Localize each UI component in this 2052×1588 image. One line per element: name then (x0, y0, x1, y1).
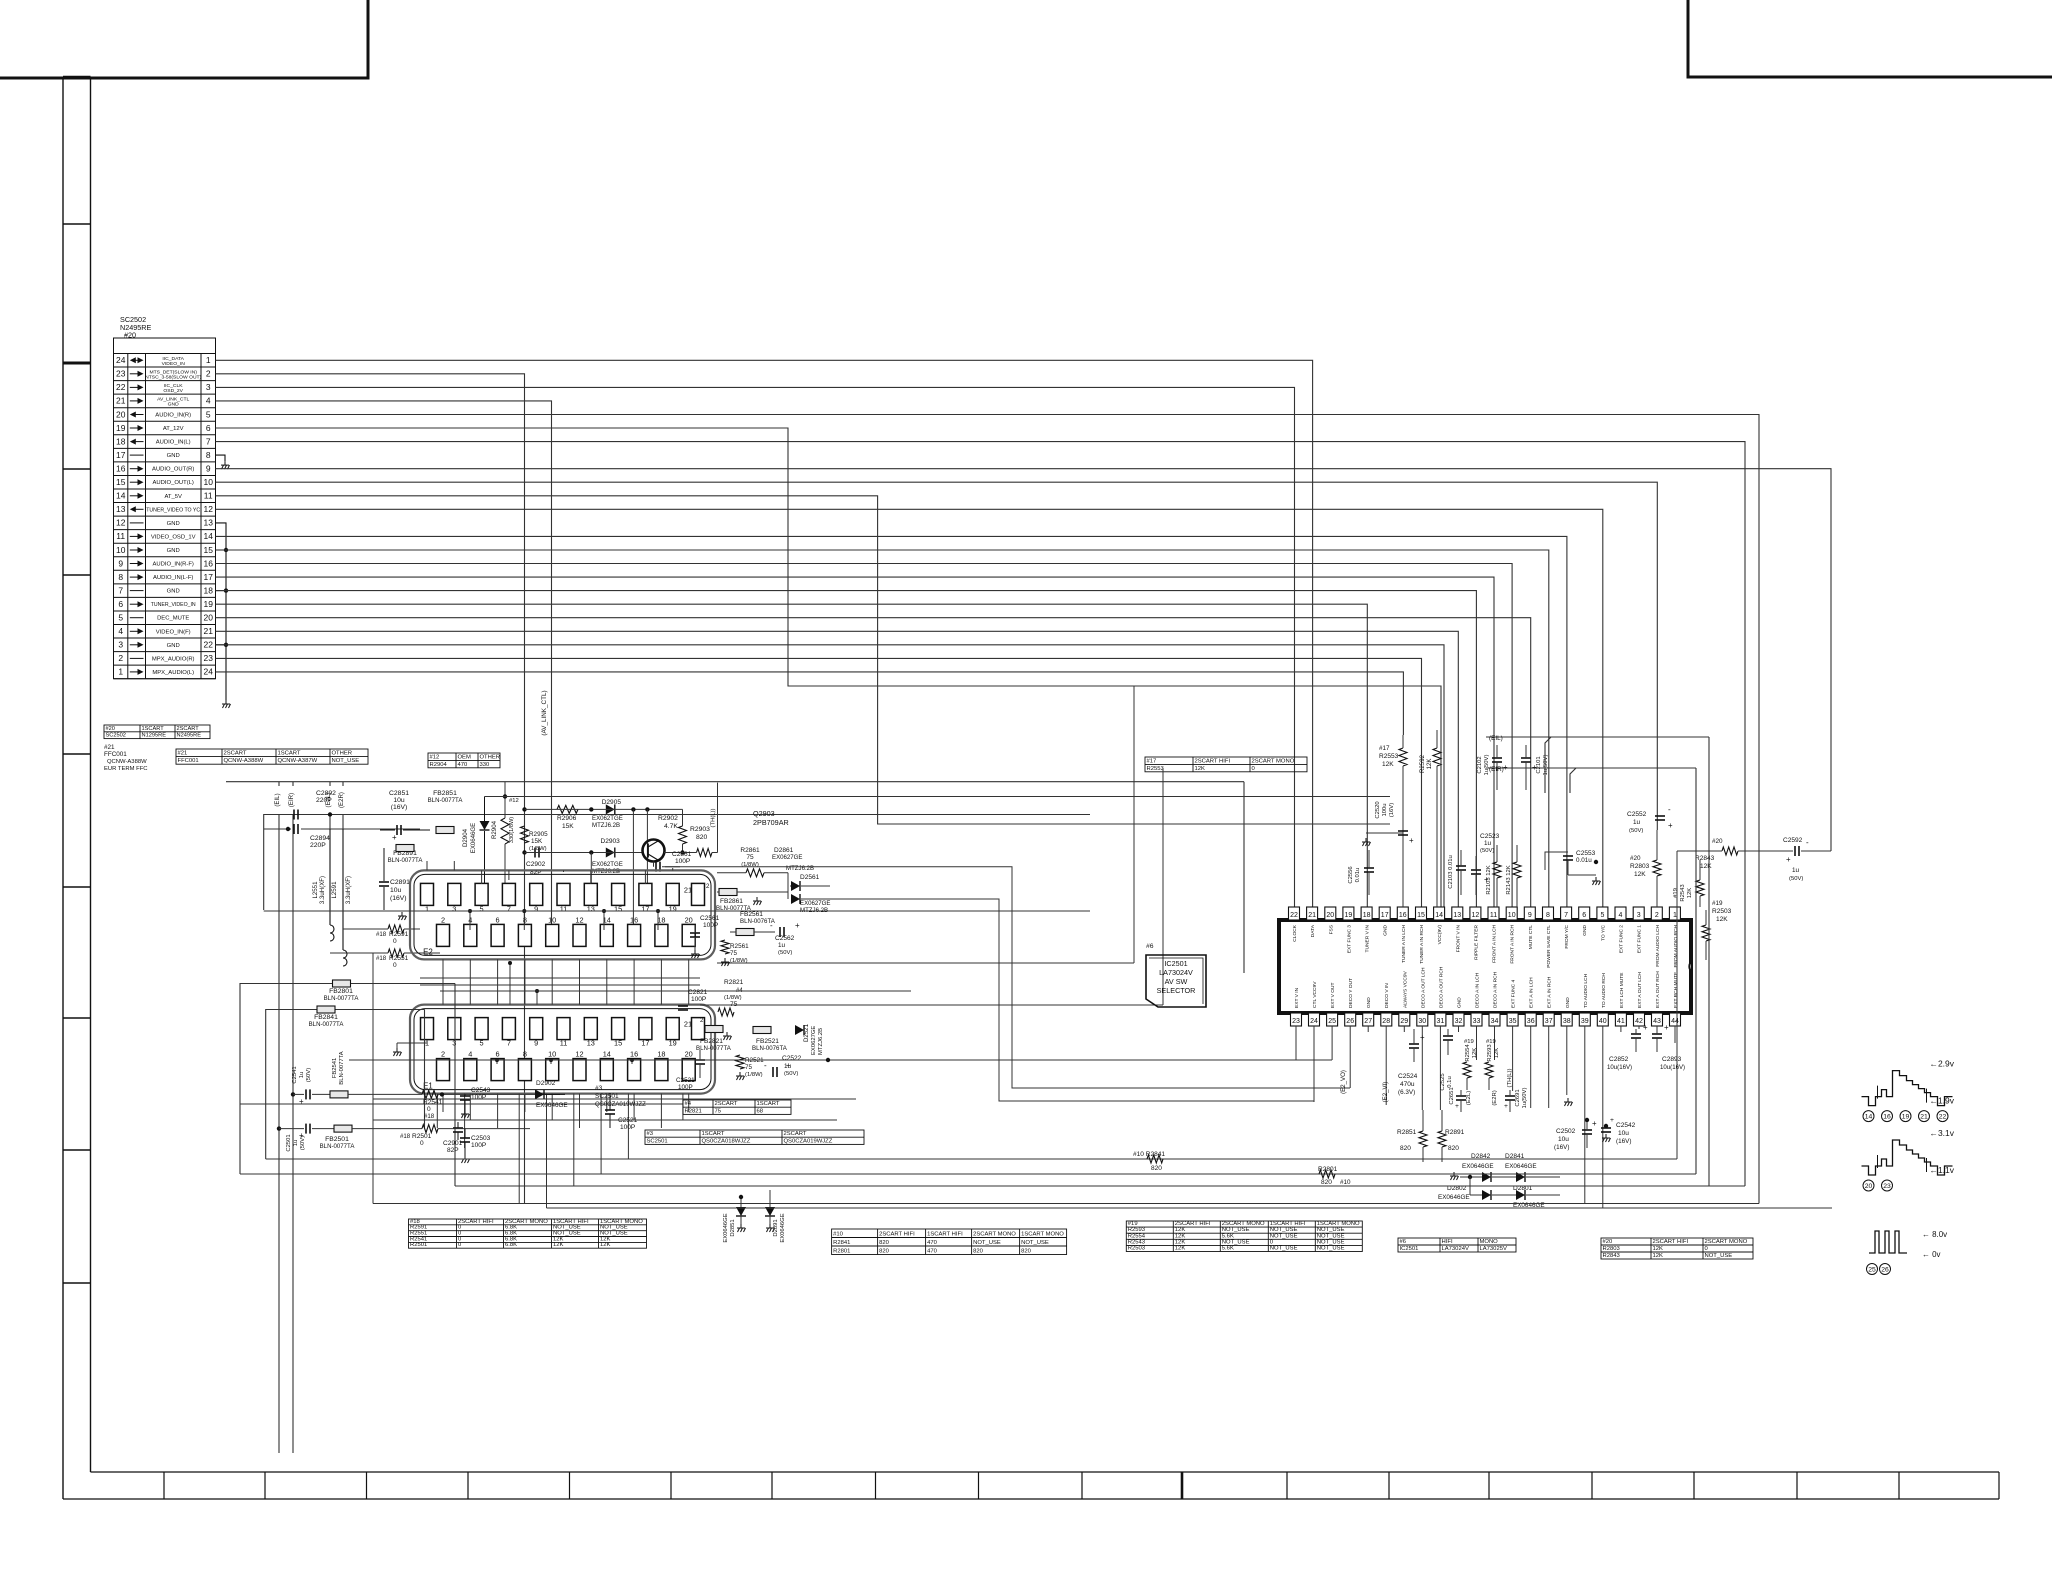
svg-text:22: 22 (1939, 1114, 1947, 1121)
svg-text:EX062TGE: EX062TGE (592, 815, 623, 822)
svg-text:(16V): (16V) (390, 895, 407, 902)
capacitor (1795, 846, 1799, 856)
diode (791, 881, 800, 891)
SCART connector E2 pin 11 (557, 883, 570, 905)
wire pin21 VIDEO_IN(F) to IC pin13 (216, 631, 1459, 907)
svg-text:TO Y/C: TO Y/C (1600, 925, 1606, 941)
svg-text:1: 1 (425, 904, 429, 913)
svg-text:2: 2 (1655, 912, 1659, 919)
svg-text:2: 2 (206, 369, 211, 379)
svg-text:12K: 12K (1716, 916, 1728, 923)
svg-text:21: 21 (203, 626, 213, 636)
svg-text:10u: 10u (390, 887, 402, 894)
svg-text:C2542: C2542 (1616, 1122, 1636, 1129)
svg-text:NOT_USE: NOT_USE (332, 758, 360, 764)
svg-text:220P: 220P (316, 797, 332, 804)
svg-text:C2543: C2543 (471, 1087, 491, 1094)
svg-text:FROM Y/C: FROM Y/C (1564, 924, 1570, 948)
svg-text:21: 21 (1920, 1114, 1928, 1121)
SCART connector E1 pin 10 (546, 1059, 559, 1081)
svg-text:-: - (1806, 838, 1809, 847)
svg-text:15: 15 (203, 545, 213, 555)
svg-text:#12: #12 (430, 754, 440, 760)
svg-text:NOT_USE: NOT_USE (1222, 1227, 1250, 1233)
svg-text:5: 5 (118, 613, 123, 623)
svg-text:20: 20 (685, 1050, 693, 1059)
svg-text:DECO V IN: DECO V IN (1384, 983, 1390, 1008)
IC2501 pin 12 (1470, 907, 1481, 920)
SCART connector E2 pin 5 (475, 883, 488, 905)
ground (221, 461, 230, 469)
svg-text:11: 11 (560, 904, 568, 913)
inter-block horizontals (717, 962, 1134, 964)
svg-text:R2902: R2902 (658, 815, 678, 822)
capacitor (678, 1006, 688, 1010)
svg-text:#17: #17 (1379, 745, 1390, 752)
svg-text:12K: 12K (1700, 863, 1712, 870)
svg-text:16: 16 (630, 915, 638, 924)
svg-text:2PB709AR: 2PB709AR (753, 818, 789, 827)
svg-text:EXT FUNC 3: EXT FUNC 3 (1346, 925, 1352, 953)
svg-text:LA73025V: LA73025V (1480, 1246, 1507, 1252)
svg-text:OSD_2V: OSD_2V (163, 388, 183, 394)
capacitor (379, 882, 389, 886)
svg-text:R2143 12K: R2143 12K (1506, 865, 1512, 894)
svg-text:C2561: C2561 (700, 915, 720, 922)
capacitor (306, 1089, 310, 1099)
wire E1 pin drop (518, 1094, 520, 1204)
main wires Q2903 cluster (525, 808, 683, 810)
svg-text:VIDEO_OSD_1V: VIDEO_OSD_1V (151, 534, 196, 540)
svg-text:12: 12 (203, 504, 213, 514)
svg-text:-: - (764, 1061, 767, 1070)
svg-text:23: 23 (203, 653, 213, 663)
svg-text:CTL VCC9V: CTL VCC9V (1312, 981, 1318, 1008)
svg-text:DECO A IN LCH: DECO A IN LCH (1475, 972, 1481, 1008)
svg-text:C2556: C2556 (1348, 866, 1354, 883)
svg-text:NTSC_3-58(SLOW OUT): NTSC_3-58(SLOW OUT) (145, 374, 201, 380)
resistor (746, 869, 764, 877)
svg-text:+: + (1455, 1103, 1459, 1110)
svg-text:10u: 10u (393, 797, 405, 804)
svg-text:1u: 1u (299, 1072, 305, 1079)
svg-text:AV SW: AV SW (1165, 977, 1188, 986)
svg-text:C2901: C2901 (443, 1140, 463, 1147)
svg-text:R2891: R2891 (1445, 1129, 1465, 1136)
IC2501 pin 42 (1634, 1013, 1645, 1026)
SCART connector E2 pin 14 (600, 924, 613, 946)
svg-text:40: 40 (1599, 1018, 1607, 1025)
diode (765, 1207, 775, 1216)
svg-text:6.8K: 6.8K (505, 1242, 517, 1248)
SCART pin riser wires (426, 861, 428, 870)
svg-text:#18: #18 (376, 931, 387, 938)
SCART connector E2 pin 13 (584, 883, 597, 905)
svg-text:DEC_MUTE: DEC_MUTE (157, 616, 189, 622)
svg-text:DECO A OUT LCH: DECO A OUT LCH (1420, 967, 1426, 1008)
IC2501 pin 36 (1525, 1013, 1536, 1026)
svg-text:C2521: C2521 (676, 1077, 695, 1084)
table #4 R2821 (683, 1100, 791, 1114)
wire pin18 (216, 591, 1477, 907)
svg-text:DECO A IN RCH: DECO A IN RCH (1493, 971, 1499, 1008)
table #20 connector variants (104, 725, 210, 739)
IC2501 pin 9 (1524, 907, 1535, 920)
diode (535, 1089, 544, 1099)
wire (EIL) (1486, 737, 1551, 793)
svg-text:1: 1 (206, 355, 211, 365)
IC2501 pin 13 (1452, 907, 1463, 920)
svg-text:10u(16V): 10u(16V) (1607, 1064, 1632, 1071)
wire (E2R) vertical (342, 782, 344, 829)
wire (EIR) vertical (292, 782, 294, 1453)
ferrite bead (333, 980, 351, 987)
svg-text:8: 8 (523, 915, 527, 924)
resistor (1438, 1131, 1446, 1147)
svg-text:FSS: FSS (1328, 924, 1334, 934)
svg-text:100P: 100P (675, 858, 691, 865)
svg-text:GND: GND (167, 643, 180, 649)
wire pin5 AUDIO_IN(R) (216, 415, 1760, 1204)
svg-text:8: 8 (206, 450, 211, 460)
svg-text:24: 24 (203, 667, 213, 677)
svg-text:(50V): (50V) (1789, 876, 1803, 882)
svg-text:100P: 100P (691, 996, 707, 1003)
svg-text:EX0627GE: EX0627GE (811, 1026, 817, 1055)
svg-text:R2905: R2905 (529, 831, 548, 838)
svg-text:42: 42 (1635, 1018, 1643, 1025)
svg-text:EUR TERM FFC: EUR TERM FFC (104, 766, 148, 772)
junction GND row 22 (224, 643, 228, 647)
wire pin3 IIC_CLK to IC pin22 (216, 387, 1295, 907)
wire pin7 AUDIO_IN(L) (216, 442, 1746, 1186)
svg-text:AUDIO_OUT(R): AUDIO_OUT(R) (152, 467, 194, 473)
svg-text:9: 9 (118, 558, 123, 568)
capacitor C2894 (294, 824, 298, 834)
svg-text:GND: GND (167, 521, 180, 527)
SCART connector E1 pin 9 (530, 1018, 543, 1040)
IC2501 pin 29 (1399, 1013, 1410, 1026)
capacitor (1471, 870, 1481, 874)
svg-text:#20: #20 (1603, 1239, 1614, 1245)
ferrite bead (317, 1006, 335, 1013)
svg-text:10: 10 (203, 477, 213, 487)
SCART connector E1 pin 21 (692, 1018, 705, 1040)
svg-text:29: 29 (1400, 1018, 1408, 1025)
svg-text:NOT_USE: NOT_USE (1270, 1233, 1298, 1239)
svg-text:1u: 1u (778, 942, 786, 949)
svg-text:QCNW-A388W: QCNW-A388W (107, 759, 147, 765)
svg-text:(EIL): (EIL) (274, 793, 281, 806)
svg-text:C2902: C2902 (526, 861, 546, 868)
svg-text:7: 7 (507, 1039, 511, 1048)
svg-text:D2902: D2902 (536, 1080, 556, 1087)
SCART connector E1 pin 17 (639, 1018, 652, 1040)
capacitor C2861 100P (653, 862, 655, 867)
svg-text:(TH(L)): (TH(L)) (711, 809, 717, 828)
IC2501 pin 19 (1343, 907, 1354, 920)
capacitor (1521, 758, 1531, 762)
svg-text:5: 5 (206, 409, 211, 419)
svg-text:+: + (299, 1097, 304, 1106)
diode D2842 (1482, 1172, 1491, 1182)
svg-text:BLN-0076TA: BLN-0076TA (752, 1045, 788, 1052)
ground (721, 958, 730, 966)
svg-text:NOT_USE: NOT_USE (1222, 1239, 1250, 1245)
svg-text:FRONT A IN LCH: FRONT A IN LCH (1492, 925, 1498, 963)
svg-text:15: 15 (116, 477, 126, 487)
capacitor (306, 1124, 310, 1134)
svg-text:FROM AUDIO RCH: FROM AUDIO RCH (1673, 925, 1679, 968)
svg-text:TUNER A IN LCH: TUNER A IN LCH (1401, 925, 1407, 963)
diode (795, 1025, 804, 1035)
wire (EIL) vertical right (1708, 737, 1710, 1186)
svg-text:GND: GND (167, 548, 180, 554)
svg-text:11: 11 (560, 1039, 568, 1048)
SCART connector E1 (410, 1005, 715, 1094)
svg-text:C2592: C2592 (1783, 837, 1803, 844)
svg-text:75: 75 (730, 950, 738, 957)
svg-text:R2103 12K: R2103 12K (1486, 865, 1492, 894)
svg-text:100P: 100P (620, 1124, 636, 1131)
svg-text:1u(50V): 1u(50V) (1522, 1088, 1528, 1109)
svg-text:←2.9v: ←2.9v (1930, 1059, 1955, 1069)
svg-text:27: 27 (1364, 1018, 1372, 1025)
svg-text:ALWAYS VCC9V: ALWAYS VCC9V (1402, 970, 1408, 1008)
svg-text:EX0646GE: EX0646GE (723, 1213, 729, 1242)
svg-text:6: 6 (496, 915, 500, 924)
svg-text:EX0627GE: EX0627GE (772, 854, 803, 861)
svg-text:820: 820 (1448, 1145, 1459, 1152)
svg-text:IC2501: IC2501 (1400, 1246, 1419, 1252)
svg-text:R2591: R2591 (389, 931, 409, 938)
wire E1 pin drop (436, 1094, 438, 1128)
wire vertical x1134 (1133, 686, 1135, 963)
svg-text:C2552: C2552 (1627, 811, 1647, 818)
svg-text:#19: #19 (1712, 900, 1723, 907)
svg-text:10u(16V): 10u(16V) (1660, 1064, 1685, 1071)
SCART connector E1 pin 1 (421, 1018, 434, 1040)
svg-text:OTHER: OTHER (480, 754, 501, 760)
E1 risers to inter-block wires (509, 963, 511, 1005)
svg-text:GND: GND (1565, 997, 1571, 1008)
SCART connector E1 pin 5 (475, 1018, 488, 1040)
vertical x373 (372, 953, 374, 1204)
svg-text:75: 75 (715, 1108, 722, 1114)
svg-text:12K: 12K (1426, 759, 1433, 770)
svg-text:EX0646GE: EX0646GE (536, 1102, 568, 1109)
svg-text:NOT_USE: NOT_USE (1270, 1246, 1298, 1252)
IC2501 pin 8 (1543, 907, 1554, 920)
wire (E2L) vertical (329, 782, 331, 829)
svg-text:2SCART: 2SCART (784, 1131, 807, 1137)
ground (1602, 1134, 1611, 1142)
svg-text:2: 2 (441, 915, 445, 924)
svg-text:13: 13 (203, 518, 213, 528)
svg-text:+: + (1409, 836, 1414, 845)
svg-text:2SCART HIFI: 2SCART HIFI (879, 1232, 915, 1238)
svg-text:TO AUDIO RCH: TO AUDIO RCH (1601, 973, 1607, 1008)
svg-text:12K: 12K (600, 1242, 611, 1248)
svg-text:C2525: C2525 (1440, 1073, 1446, 1091)
svg-text:NOT_USE: NOT_USE (1270, 1227, 1298, 1233)
svg-text:82P: 82P (447, 1147, 459, 1154)
svg-text:6: 6 (118, 599, 123, 609)
wire pin12 TUNER_VIDEO TO YC to IC pin5 (216, 509, 1603, 907)
svg-text:AUDIO_OUT(L): AUDIO_OUT(L) (153, 480, 194, 486)
transistor Q2903 (643, 840, 665, 862)
svg-text:C2502: C2502 (1556, 1128, 1576, 1135)
ground (1362, 838, 1371, 846)
svg-text:1: 1 (1673, 912, 1677, 919)
svg-text:BLN-0077TA: BLN-0077TA (696, 1045, 732, 1052)
svg-text:#4: #4 (736, 987, 743, 994)
svg-text:68: 68 (757, 1108, 764, 1114)
svg-text:DATA: DATA (1310, 924, 1316, 937)
SCART connector E2 pin 12 (573, 924, 586, 946)
svg-text:IIC_DATA: IIC_DATA (162, 356, 184, 362)
junction GND row 15 (224, 548, 228, 552)
svg-text:17: 17 (203, 572, 213, 582)
IC2501 pin 31 (1435, 1013, 1446, 1026)
table #20 (1601, 1238, 1753, 1259)
op-amp IC U IC2501 LA73024V body (1279, 920, 1691, 1013)
svg-text:24: 24 (116, 355, 126, 365)
svg-text:20: 20 (1865, 1183, 1873, 1190)
svg-text:AUDIO_IN(L): AUDIO_IN(L) (156, 440, 191, 446)
wire pin20 DEC_MUTE to IC pin9 (216, 618, 1531, 907)
svg-text:330: 330 (480, 762, 491, 768)
svg-text:+: + (1610, 1117, 1614, 1124)
wire pin17 AUDIO_IN(L-F) to IC pin11 (216, 577, 1495, 907)
svg-text:21: 21 (116, 396, 126, 406)
svg-text:GND: GND (1582, 925, 1588, 936)
ferrite bead (705, 1026, 723, 1033)
svg-text:7: 7 (1564, 912, 1568, 919)
wire pin8 to ground (216, 455, 226, 461)
svg-text:+: + (1664, 1023, 1669, 1032)
svg-text:#4: #4 (685, 1101, 692, 1107)
svg-text:23: 23 (1883, 1183, 1891, 1190)
svg-text:1u: 1u (1484, 840, 1492, 847)
svg-text:2SCART: 2SCART (224, 751, 247, 757)
IC2501 pin 16 (1397, 907, 1408, 920)
svg-text:1SCART: 1SCART (757, 1101, 780, 1107)
svg-text:R2843: R2843 (1695, 855, 1715, 862)
svg-text:+: + (392, 833, 397, 842)
svg-text:+: + (1420, 1033, 1425, 1042)
SCART connector E2 pin 20 (682, 924, 695, 946)
svg-text:BLN-0077TA: BLN-0077TA (428, 797, 464, 804)
svg-text:18: 18 (116, 436, 126, 446)
svg-text:D2905: D2905 (602, 799, 622, 806)
capacitor (695, 1060, 705, 1064)
svg-text:13: 13 (116, 504, 126, 514)
wire crossing E1 y1104 (240, 1103, 683, 1105)
svg-text:D2904: D2904 (462, 828, 469, 847)
svg-text:(16V): (16V) (391, 804, 408, 811)
svg-text:100P: 100P (678, 1084, 693, 1091)
svg-text:R2821: R2821 (685, 1108, 702, 1114)
diode D2801 (1516, 1190, 1525, 1200)
IC2501 pin 24 (1309, 1013, 1320, 1026)
E2 internal taps to y911 (469, 911, 471, 930)
resistor (1696, 880, 1704, 896)
svg-text:VIDEO_IN: VIDEO_IN (162, 361, 186, 367)
IC2501 pin 44 (1670, 1013, 1681, 1026)
svg-text:470u: 470u (1400, 1081, 1415, 1088)
svg-text:GND: GND (1383, 925, 1389, 936)
svg-text:14: 14 (203, 531, 213, 541)
svg-text:FROM AUDIO LCH: FROM AUDIO LCH (1655, 925, 1661, 967)
svg-text:MONO: MONO (1480, 1239, 1499, 1245)
svg-text:EX062TGE: EX062TGE (592, 861, 623, 868)
svg-text:LA73024V: LA73024V (1159, 968, 1193, 977)
SCART connector E2 pin 8 (518, 924, 531, 946)
resistor (1419, 1131, 1427, 1147)
IC2501 pin 37 (1543, 1013, 1554, 1026)
svg-text:14: 14 (116, 491, 126, 501)
svg-text:7: 7 (118, 585, 123, 595)
svg-text:EX0646GE: EX0646GE (1462, 1163, 1494, 1170)
wire pin25 left (349, 1059, 1332, 1061)
svg-text:R2843: R2843 (1603, 1253, 1620, 1259)
svg-text:0.01u: 0.01u (1576, 857, 1592, 864)
svg-text:QS0CZA019WJZZ: QS0CZA019WJZZ (595, 1101, 646, 1108)
svg-text:1u: 1u (1792, 867, 1800, 874)
svg-text:C2103 0.01u: C2103 0.01u (1448, 855, 1454, 889)
svg-text:C2861: C2861 (672, 851, 692, 858)
svg-text:28: 28 (1382, 1018, 1390, 1025)
svg-text:R2554: R2554 (1128, 1233, 1146, 1239)
capacitor (1456, 866, 1466, 870)
svg-text:39: 39 (1581, 1018, 1589, 1025)
svg-text:12K: 12K (553, 1242, 564, 1248)
svg-text:MPX_AUDIO(R): MPX_AUDIO(R) (152, 656, 195, 662)
svg-text:C2852: C2852 (1609, 1056, 1629, 1063)
resistor (697, 849, 713, 857)
capacitor (535, 848, 539, 858)
SCART connector E1 pin 4 (464, 1059, 477, 1081)
ground (461, 1110, 470, 1118)
svg-text:R2553: R2553 (1379, 753, 1399, 760)
resistor (1147, 1155, 1163, 1163)
svg-text:19: 19 (669, 904, 677, 913)
svg-text:GND: GND (1366, 997, 1372, 1008)
svg-text:820: 820 (1321, 1179, 1332, 1186)
svg-text:EXT RCH MUTE: EXT RCH MUTE (1673, 971, 1679, 1008)
wire pin11 AT_5V (216, 496, 1391, 824)
svg-text:1SCART MONO: 1SCART MONO (1021, 1232, 1064, 1238)
svg-text:C2101: C2101 (1536, 756, 1542, 773)
svg-text:1SCART: 1SCART (702, 1131, 725, 1137)
svg-text:R2906: R2906 (557, 815, 577, 822)
svg-text:TO AUDIO LCH: TO AUDIO LCH (1583, 973, 1589, 1008)
svg-text:(50V): (50V) (784, 1071, 798, 1077)
svg-text:CLOCK: CLOCK (1292, 924, 1298, 941)
svg-text:33: 33 (1473, 1018, 1481, 1025)
svg-text:+: + (1592, 1119, 1597, 1128)
svg-text:EXT A OUT RCH: EXT A OUT RCH (1655, 971, 1661, 1008)
svg-text:470: 470 (458, 762, 469, 768)
resistor (422, 1125, 438, 1133)
svg-text:23: 23 (1292, 1018, 1300, 1025)
svg-text:23: 23 (116, 369, 126, 379)
SCART connector E1 pin 13 (584, 1018, 597, 1040)
svg-text:L2591: L2591 (331, 881, 338, 899)
svg-text:10: 10 (116, 545, 126, 555)
IC bottom pin wires (1295, 1026, 1297, 1060)
